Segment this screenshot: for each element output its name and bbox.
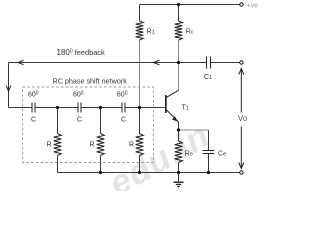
wire Re bottom lead [178, 163, 180, 173]
wire emitter vertical to junction [178, 122, 180, 130]
svg-text:Re: Re [185, 150, 193, 157]
svg-text:R: R [90, 141, 95, 148]
wire R (2nd) top lead [100, 108, 102, 134]
resistor Rc [175, 21, 183, 40]
node top rail / Rc [177, 3, 180, 6]
svg-text:R: R [129, 141, 134, 148]
arrowhead feedback mid [154, 60, 160, 65]
wire collector vertical [178, 63, 180, 91]
wire Rc top lead [178, 5, 180, 22]
resistor R (3rd) [136, 134, 144, 156]
ground [174, 182, 184, 188]
wire C1 to output terminal [211, 62, 240, 64]
wire Re top lead [178, 130, 180, 141]
arrowhead down on left drop [6, 86, 11, 92]
svg-text:Rc: Rc [186, 28, 194, 35]
dashed box RC phase shift network [23, 87, 154, 163]
capacitor C (2nd) plates [78, 103, 81, 113]
capacitor C (1st) plates [32, 103, 35, 113]
terminal output bottom [240, 171, 243, 174]
capacitor Ce plates [203, 151, 215, 154]
terminal output top [240, 61, 243, 64]
svg-text:600: 600 [73, 90, 84, 98]
node collector / C1 [177, 61, 180, 64]
node base / R1 [138, 106, 141, 109]
wire R (1st) bottom lead [57, 156, 59, 173]
wire R (3rd) bottom lead [139, 156, 141, 173]
node after C (2nd) [99, 106, 102, 109]
wire R (2nd) bottom lead [100, 156, 102, 173]
wire network segment 4 to base [126, 107, 166, 109]
capacitor C (3rd) plates [122, 103, 125, 113]
wire Ce bottom lead [208, 153, 210, 173]
watermark [103, 116, 217, 204]
node emitter [177, 128, 180, 131]
wire Rc bottom lead [178, 40, 180, 63]
svg-text:+ve: +ve [247, 3, 259, 10]
svg-text:C: C [31, 117, 36, 124]
node rail Ce [207, 171, 210, 174]
wire phase-shift network line segment 1 [9, 107, 32, 109]
node rail R (2nd) [99, 171, 102, 174]
wire network segment 3 [82, 107, 122, 109]
wire R1 top lead [139, 5, 141, 22]
wire R (1st) top lead [57, 108, 59, 134]
svg-text:edu.in: edu.in [103, 116, 217, 191]
wire feedback line (collector node, y=62.5) [9, 62, 206, 64]
wire R1 bottom lead (crosses feedback line, joins base node) [139, 40, 141, 108]
svg-text:C: C [121, 117, 126, 124]
resistor Re [175, 141, 183, 163]
wire ground stub [178, 173, 180, 182]
svg-text:C1: C1 [204, 74, 212, 81]
svg-text:Vo: Vo [238, 114, 248, 123]
svg-text:Ce: Ce [218, 150, 226, 157]
svg-text:T1: T1 [182, 104, 189, 111]
arrowhead feedback left [18, 60, 24, 64]
wire emitter branch to Ce [179, 129, 209, 131]
svg-text:R: R [47, 141, 52, 148]
wire left feedback drop [8, 63, 10, 108]
node rail Re/ground [177, 171, 180, 174]
wire top supply rail [140, 4, 240, 6]
svg-text:R1: R1 [147, 28, 155, 35]
node after C (1st) [56, 106, 59, 109]
svg-text:RC phase shift network: RC phase shift network [53, 77, 128, 86]
wire Ce top lead [208, 130, 210, 150]
svg-text:C: C [77, 117, 82, 124]
resistor R (2nd) [97, 134, 105, 156]
svg-text:1800 feedback: 1800 feedback [57, 48, 105, 57]
transistor T1 [165, 90, 179, 122]
wire network segment 2 [36, 107, 78, 109]
resistor R (1st) [54, 134, 62, 156]
capacitor C1 plates [207, 57, 211, 69]
wire R (3rd) top lead [139, 108, 141, 134]
node rail R (3rd) [138, 171, 141, 174]
Vo measurement arrow [239, 69, 244, 169]
wire bottom ground rail [58, 172, 240, 174]
svg-text:600: 600 [117, 90, 128, 98]
terminal +ve [240, 3, 243, 6]
resistor R1 [136, 21, 144, 40]
svg-text:600: 600 [28, 90, 39, 98]
